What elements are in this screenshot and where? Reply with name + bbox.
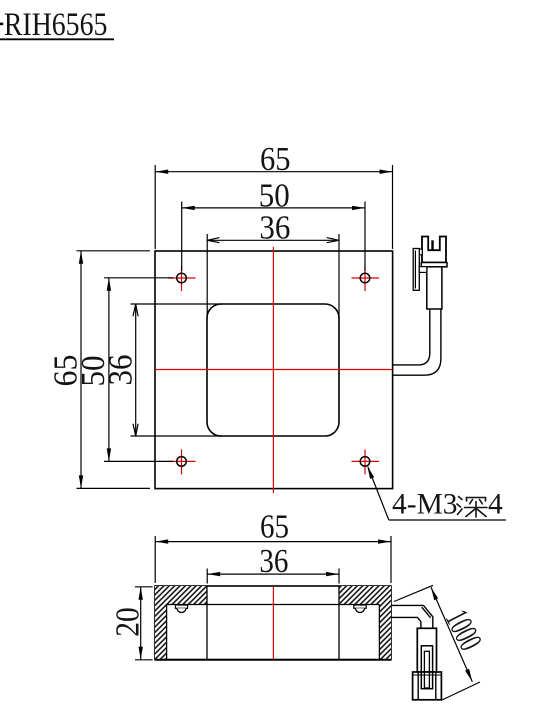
hole top-left xyxy=(168,266,196,291)
dimension 36 bottom view xyxy=(207,543,339,584)
cable bottom view xyxy=(391,605,433,628)
dimension 65 horizontal top xyxy=(155,141,392,249)
svg-text:36: 36 xyxy=(103,355,140,386)
svg-text:36: 36 xyxy=(259,543,288,580)
hole bottom-right xyxy=(352,449,380,474)
svg-text:65: 65 xyxy=(260,141,291,178)
svg-text:4-M3: 4-M3 xyxy=(392,488,458,520)
plate outline top view xyxy=(155,251,393,489)
dimension 50 horizontal top xyxy=(182,177,365,271)
svg-text:36: 36 xyxy=(259,210,290,247)
svg-text:4: 4 xyxy=(488,488,503,520)
dimension 50 vertical left xyxy=(75,278,173,462)
dimension 20 vertical bottom view xyxy=(109,587,152,660)
svg-text:20: 20 xyxy=(109,607,146,637)
hole top-right xyxy=(352,266,380,291)
connector top view xyxy=(413,237,447,310)
screw recess right (section) xyxy=(354,605,366,613)
dimension 36 horizontal top (open arrows) xyxy=(207,210,339,319)
section body bottom view xyxy=(155,586,391,660)
svg-text:RIH6565: RIH6565 xyxy=(4,7,108,43)
hole bottom-left xyxy=(168,449,196,474)
cable top view xyxy=(393,309,441,375)
title RIH6565 xyxy=(0,7,114,43)
screw recess left (section) xyxy=(175,605,187,613)
centerline vertical (red) xyxy=(272,247,274,493)
dimension 65 vertical left xyxy=(47,251,150,489)
dimension 65 bottom view xyxy=(155,509,391,583)
centerline bottom view (red) xyxy=(272,587,274,659)
dimension 1000 diagonal xyxy=(394,585,488,700)
hanzi shen (deep) xyxy=(457,497,487,518)
centerline horizontal (red) xyxy=(155,369,392,371)
aperture rounded square xyxy=(207,304,339,436)
dimension 36 vertical left (open arrows) xyxy=(103,304,222,436)
svg-text:65: 65 xyxy=(260,509,289,546)
connector bottom view xyxy=(413,628,442,700)
leader 4-M3 xyxy=(367,466,506,520)
